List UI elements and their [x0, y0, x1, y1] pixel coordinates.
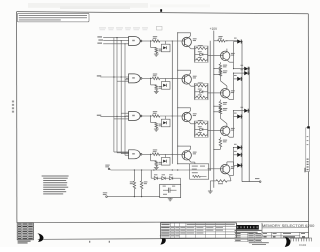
- svg-text:F104: F104: [299, 243, 306, 247]
- note box: [17, 13, 89, 22]
- ground: [154, 167, 159, 169]
- transistor Q1A: [182, 33, 197, 49]
- resistor R21: [152, 74, 160, 80]
- output wire row 2: [230, 73, 238, 100]
- transistor Q4B: [221, 162, 235, 176]
- input wire gate E2: [97, 75, 129, 81]
- blip mark 1: [37, 233, 43, 242]
- gate E3: [126, 112, 142, 121]
- resistor R31: [130, 170, 136, 197]
- diode D33: [233, 107, 250, 113]
- terminal J1: [105, 165, 109, 170]
- dec form note: [249, 242, 269, 245]
- transistor Q3A: [182, 108, 197, 124]
- drawing number strip right edge: [304, 126, 310, 172]
- resistor R35 to rail: [213, 106, 227, 124]
- resistor R41: [152, 149, 160, 155]
- output rail 2: [248, 67, 250, 182]
- bus junctions: [116, 37, 125, 44]
- +10V feed row 1, resistor R15: [214, 36, 238, 42]
- diode D32: [234, 113, 243, 119]
- transistor Q1B: [208, 49, 235, 63]
- resistor R25 to rail: [213, 68, 227, 86]
- wire Q4A collector: [177, 146, 190, 147]
- diode D54: [227, 162, 243, 168]
- wire bus bottom A: [110, 169, 211, 170]
- collector feed rail B: [177, 33, 179, 164]
- signal labels row: [99, 26, 162, 30]
- blip mark 2: [160, 235, 166, 245]
- resistor R33: [210, 176, 231, 191]
- gate E1: [129, 37, 142, 46]
- series diodes D51 D52 D53: [151, 170, 177, 180]
- transistor Q4A: [182, 146, 197, 162]
- wire network row4 top: [177, 163, 190, 164]
- sheet number 6200 vertical, left margin: [12, 101, 14, 113]
- company name lines: [235, 230, 262, 233]
- parts list table: [161, 223, 237, 238]
- wire Q1A collector: [177, 32, 190, 33]
- gate E2: [126, 74, 142, 83]
- ruler scale: [291, 238, 312, 241]
- rail end terminal: [242, 178, 261, 182]
- network box row 4: [190, 162, 223, 179]
- wire Q3A collector: [177, 107, 190, 108]
- title block grid: [236, 223, 308, 238]
- ground: [168, 198, 173, 201]
- collector feed rail A: [171, 41, 173, 164]
- size code number rev cells: [263, 233, 305, 237]
- +10V rail: [213, 31, 215, 188]
- resistor R42 with ground: [151, 154, 163, 167]
- ground: [154, 129, 159, 131]
- notes text block: [42, 176, 69, 195]
- diode D12: [234, 38, 243, 44]
- output wire row 3: [230, 111, 238, 138]
- top fold tick: [160, 9, 162, 12]
- drn chk eng prod rows: [235, 233, 262, 242]
- wire bus bottom B: [107, 196, 159, 197]
- bus wires: [114, 38, 129, 156]
- wire gate E3 output: [142, 115, 182, 116]
- resistor R12 with ground: [151, 41, 163, 54]
- resistor R32 with ground: [151, 116, 163, 129]
- diode D13 row1: [233, 65, 250, 71]
- input wire gate E3: [97, 113, 129, 119]
- diode box D41: [161, 154, 170, 165]
- diode box D21: [161, 78, 170, 89]
- ground: [208, 191, 213, 193]
- wire Q2A collector: [177, 70, 190, 71]
- resistor R16 lower: [213, 62, 227, 75]
- resistor R22 with ground: [151, 78, 163, 91]
- transistor Q3B: [208, 124, 235, 138]
- diode box D11: [161, 41, 170, 52]
- resistor R32: [140, 170, 147, 197]
- revision table: [17, 223, 33, 244]
- capacitor box C1: [160, 184, 181, 197]
- ground: [154, 91, 159, 93]
- network R/D/R row 1: [191, 45, 208, 62]
- resistor R11: [152, 36, 160, 42]
- gate E4: [129, 150, 142, 159]
- transistor Q2A: [182, 70, 197, 86]
- network R/D/R row 3: [191, 120, 208, 137]
- output wire row 1: [230, 42, 238, 69]
- svg-text:MEMORY SELECTOR 6200: MEMORY SELECTOR 6200: [262, 223, 315, 228]
- resistor R36 lower: [213, 137, 227, 150]
- diode D22: [234, 75, 243, 81]
- zone numbers bottom: [89, 241, 110, 243]
- resistor R26 lower: [213, 100, 227, 113]
- transistor Q2B: [208, 86, 235, 100]
- diode D43 row4: [233, 144, 243, 150]
- digital logo: [236, 225, 259, 230]
- diode D42: [234, 151, 243, 157]
- wire gate E2 output: [142, 78, 182, 79]
- network R/D/R row 2: [191, 82, 208, 99]
- svg-text:+10V: +10V: [210, 27, 218, 31]
- blip mark 3: [284, 236, 291, 247]
- wire gate E1 output: [142, 40, 182, 41]
- resistor R31: [152, 111, 160, 117]
- diode box D31: [161, 116, 170, 127]
- diode D23: [233, 69, 250, 75]
- wire to box C1: [177, 178, 181, 184]
- rail secondary: [209, 41, 211, 170]
- output wire row 4: [230, 148, 238, 176]
- ground: [154, 54, 159, 56]
- terminal J2: [103, 192, 107, 197]
- wire gate E4 output: [142, 154, 182, 155]
- scan smudge top margin: [28, 3, 210, 9]
- output rail 1: [241, 41, 243, 182]
- input wires gate E1: [97, 36, 128, 43]
